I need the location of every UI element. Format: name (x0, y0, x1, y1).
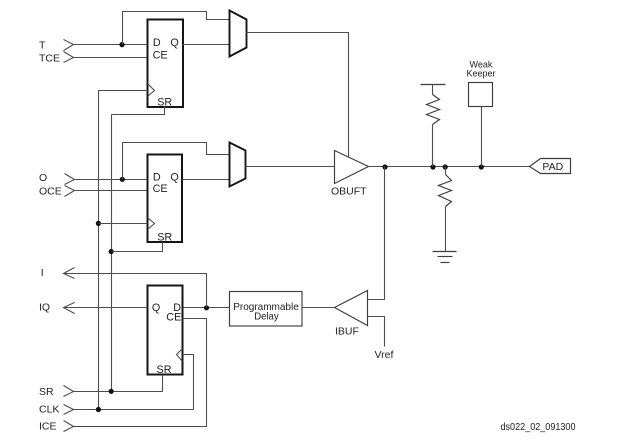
wire mux M2 output to OBUFT input (246, 166, 335, 168)
flip-flop IFF (input) (148, 286, 183, 377)
wire IFF SR to SR input (74, 375, 163, 392)
op-amp IBUF input buffer (335, 291, 368, 338)
label Vref (375, 349, 394, 361)
input chevron ICE (64, 421, 74, 432)
pad PAD (530, 159, 571, 174)
node junction I branch (204, 305, 209, 310)
svg-text:Keeper: Keeper (467, 68, 496, 78)
wire IFF Q to IQ (64, 307, 148, 309)
svg-text:CE: CE (166, 311, 181, 323)
wire OBUFT output to PAD (369, 166, 530, 168)
label document number (501, 422, 576, 433)
node junction to IBUF (382, 164, 387, 169)
node junction on T wire (119, 42, 124, 47)
svg-text:TCE: TCE (39, 52, 60, 64)
input chevron CLK (64, 405, 74, 415)
svg-text:Q: Q (170, 171, 178, 183)
flip-flop TFF (tristate) (148, 20, 184, 109)
node junction SR to OFF (109, 249, 114, 254)
input chevron TCE (64, 52, 74, 63)
port label OCE (39, 185, 62, 197)
svg-text:ICE: ICE (39, 421, 57, 433)
wire OFF Q to mux M2 (183, 179, 230, 181)
svg-text:CE: CE (153, 183, 168, 195)
port label ICE (39, 421, 57, 433)
wire IBUF Vref (368, 317, 385, 347)
svg-text:ds022_02_091300: ds022_02_091300 (501, 422, 576, 433)
node junction pull-down (443, 164, 448, 169)
svg-text:CLK: CLK (39, 404, 59, 416)
op-amp OBUFT output buffer (331, 151, 369, 198)
wire T bypass to mux M1 (123, 12, 230, 45)
resistor pull-down (439, 167, 452, 252)
port label I (41, 267, 44, 279)
input chevron T (64, 40, 74, 51)
input chevron OCE (65, 186, 75, 197)
mux M2 (230, 143, 246, 187)
port label IQ (39, 302, 50, 314)
node junction pull-up (430, 164, 435, 169)
node junction CLK input to bus (96, 407, 101, 412)
svg-text:SR: SR (39, 386, 54, 398)
wire O bypass to mux M2 (123, 143, 230, 180)
svg-text:SR: SR (157, 364, 172, 376)
port label T (39, 40, 46, 52)
wire TFF SR to SR bus (112, 107, 165, 115)
wire delay to IFF D (183, 307, 230, 309)
flip-flop OFF (output) (148, 155, 183, 244)
node junction SR input to bus (109, 389, 114, 394)
port label SR (39, 386, 54, 398)
svg-text:D: D (153, 171, 161, 183)
wire TFF Q to mux M1 (183, 44, 230, 46)
wire SR bus vertical (111, 115, 113, 392)
wire T to TFF D (74, 44, 148, 46)
port label CLK (39, 404, 59, 416)
svg-text:PAD: PAD (542, 161, 563, 173)
ground (433, 252, 457, 263)
node junction weak keeper (479, 164, 484, 169)
svg-text:IQ: IQ (39, 302, 50, 314)
svg-text:SR: SR (157, 232, 172, 244)
wire IFF clock to CLK (74, 355, 194, 410)
input chevron SR (64, 386, 74, 397)
svg-text:OCE: OCE (39, 185, 62, 197)
wire CLK bus vertical (99, 91, 148, 410)
wire IFF CE to ICE (74, 319, 207, 427)
svg-text:D: D (153, 37, 161, 49)
output arrow I (64, 268, 75, 279)
svg-text:IBUF: IBUF (335, 326, 359, 338)
wire pad net to IBUF input (368, 167, 385, 300)
svg-text:Q: Q (170, 37, 178, 49)
output arrow IQ (64, 303, 75, 314)
wire I branch up (64, 274, 207, 308)
wire SR bus to OFF SR (112, 243, 163, 252)
svg-text:I: I (41, 267, 44, 279)
power rail bar (421, 84, 446, 86)
svg-text:Q: Q (152, 302, 160, 314)
wire O to OFF D (75, 179, 148, 181)
svg-text:O: O (39, 172, 47, 184)
port label O (39, 172, 47, 184)
weak keeper label (467, 59, 496, 78)
box programmable delay (230, 292, 303, 327)
wire CLK bus to OFF clock (99, 223, 148, 225)
svg-text:Delay: Delay (254, 311, 279, 323)
node junction CLK to OFF (96, 221, 101, 226)
wire TCE to TFF CE (74, 57, 148, 59)
svg-text:OBUFT: OBUFT (331, 186, 367, 198)
svg-text:Vref: Vref (375, 349, 394, 361)
svg-text:CE: CE (153, 50, 168, 62)
svg-text:T: T (39, 40, 46, 52)
wire OCE to OFF CE (75, 190, 148, 192)
resistor pull-up (427, 85, 440, 167)
wire mux M1 output to OBUFT enable (247, 33, 349, 157)
wire weak keeper to pad net (481, 107, 483, 167)
weak keeper box (469, 83, 493, 107)
input chevron O (65, 174, 75, 185)
wire IBUF output to delay (303, 307, 335, 309)
node junction on O wire (120, 177, 125, 182)
mux M1 (230, 11, 247, 57)
port label TCE (39, 52, 60, 64)
